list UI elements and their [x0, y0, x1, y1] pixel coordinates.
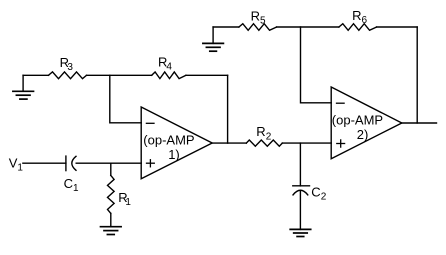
ground G2 (below R1) — [101, 227, 122, 235]
capacitor C1 — [66, 156, 76, 171]
wire node A down to op-amp U1 inverting input — [110, 75, 141, 123]
U1 minus pin mark — [146, 122, 154, 124]
wire V1 lead — [23, 162, 66, 164]
svg-text:2): 2) — [357, 127, 369, 142]
wire ground to R3 — [23, 74, 48, 76]
wire C1 to op-amp U1 non-inverting input — [76, 162, 141, 164]
wire R6 to right corner — [377, 26, 418, 28]
wire R4 to feedback corner — [186, 74, 228, 76]
resistor R1 — [108, 175, 115, 213]
resistor R3 — [49, 72, 87, 79]
wire top ground to R5 — [213, 26, 239, 28]
op-amp U2 — [331, 87, 402, 159]
op-amp U1 — [141, 107, 212, 179]
ground G3 (below C2) — [290, 229, 311, 236]
resistor R5 — [239, 24, 277, 31]
svg-text:(op-AMP: (op-AMP — [143, 132, 194, 147]
wire node D down to op-amp U2 inverting input — [301, 27, 332, 103]
ground G4 (top) — [203, 27, 224, 51]
wire node C down to C2 — [299, 143, 301, 186]
wire right feedback vertical to U2 output — [416, 27, 418, 123]
wire R2 to op-amp U2 non-inverting input — [282, 142, 331, 144]
wire U1 output to R2 — [212, 142, 246, 144]
wire C2 to ground — [299, 191, 301, 230]
U2 minus pin mark — [337, 102, 345, 104]
svg-text:(op-AMP: (op-AMP — [332, 112, 383, 127]
resistor R4 — [152, 72, 186, 79]
U1 plus pin mark — [147, 160, 155, 167]
resistor R2 — [246, 140, 282, 146]
wire R5 to R6 — [277, 26, 339, 28]
wire node B down to R1 — [110, 163, 112, 175]
label U2 (op-AMP 2) — [332, 112, 383, 142]
U2 plus pin mark — [337, 140, 345, 147]
svg-text:1): 1) — [168, 147, 180, 162]
wire U2 output — [402, 122, 437, 124]
capacitor C2 — [293, 186, 310, 195]
wire feedback vertical down to U1 output — [227, 75, 229, 143]
label U1 (op-AMP 1) — [143, 132, 194, 162]
resistor R6 — [339, 24, 377, 31]
ground G1 (top-left) — [13, 75, 34, 99]
wire R1 to ground — [110, 213, 112, 226]
wire R3 to R4 — [87, 74, 152, 76]
